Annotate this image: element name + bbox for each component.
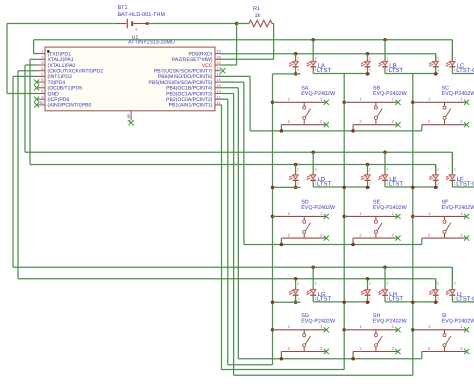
- svg-text:EVQ-P2402W: EVQ-P2402W: [373, 319, 408, 325]
- wire PB2 across and down: [221, 98, 228, 100]
- wire switch row net: [238, 358, 421, 360]
- wire switch row net: [244, 244, 422, 246]
- svg-text:PB1(AIN1/PCINT1): PB1(AIN1/PCINT1): [169, 103, 213, 109]
- pin 1 (TXD)PD1: [37, 50, 71, 58]
- svg-text:3: 3: [41, 61, 43, 65]
- svg-text:10: 10: [39, 101, 43, 105]
- wire PB2 bottom run to column A: [228, 364, 273, 366]
- pin 16 PB6(MISO/DO/PCINT6): [158, 73, 221, 81]
- wire junction to R1: [237, 23, 249, 25]
- wire jog up to right switch pin2: [421, 352, 423, 359]
- wire PD2 down: [18, 70, 37, 72]
- junction VCC/R1 node: [235, 22, 239, 26]
- wire R1 down to PA2: [273, 24, 275, 60]
- wire column A vertical: [272, 74, 274, 365]
- svg-text:-: -: [431, 281, 432, 285]
- pin 17 PB7(UCSK/SCK/PCINT7): [154, 67, 221, 75]
- svg-text:14: 14: [217, 84, 221, 88]
- wire led2 bottom to next column: [385, 301, 438, 303]
- wire column B vertical: [343, 74, 345, 370]
- wire PB4 across and down: [221, 87, 239, 89]
- LED LG pair: [289, 265, 317, 304]
- LED LC pair: [429, 40, 456, 76]
- wire battery minus to GND pin: [7, 93, 37, 95]
- wire PA0 down: [25, 64, 37, 66]
- svg-text:9: 9: [41, 95, 43, 99]
- wire switch pin2 riser: [352, 238, 354, 244]
- battery BT1: [117, 19, 147, 33]
- pin 4 (CKOUT/XCK/INT0)PD2: [37, 67, 103, 75]
- wire battery plus to junction: [147, 23, 236, 25]
- pin 5 (INT1)PD3: [37, 73, 72, 81]
- wire PB3 bottom run to column C: [234, 374, 413, 376]
- svg-text:13: 13: [217, 90, 221, 94]
- svg-text:-: -: [380, 167, 381, 171]
- wire switch pin2 riser: [280, 238, 282, 244]
- svg-text:1k: 1k: [255, 13, 261, 19]
- svg-text:-: -: [291, 281, 292, 285]
- svg-text:1: 1: [41, 50, 43, 54]
- wire rail row2 upper (PA0 net): [25, 151, 452, 153]
- svg-text:11: 11: [217, 101, 221, 105]
- wire led bottom rail: [273, 73, 301, 75]
- svg-text:R1: R1: [253, 6, 260, 12]
- svg-text:EVQ-P2402W: EVQ-P2402W: [442, 91, 474, 97]
- svg-text:EVQ-P2402W: EVQ-P2402W: [373, 205, 408, 211]
- LED LH pair: [361, 265, 389, 304]
- pin 12 PB2(OC0A/PCINT2): [166, 95, 221, 103]
- wire led bottom rail: [273, 186, 301, 188]
- switch SC: [411, 97, 469, 128]
- no-connect PD5: [34, 85, 39, 90]
- svg-text:-: -: [309, 56, 310, 60]
- svg-text:-: -: [363, 56, 364, 60]
- svg-text:EVQ-P2402W: EVQ-P2402W: [442, 205, 474, 211]
- svg-text:EVQ-P2402W: EVQ-P2402W: [442, 319, 474, 325]
- wire switch pin2 riser: [352, 352, 354, 359]
- svg-text:6: 6: [41, 78, 43, 82]
- wire switch row net: [250, 130, 422, 132]
- switch SB: [342, 97, 400, 128]
- svg-text:-: -: [448, 167, 449, 171]
- wire PB5 across and down: [221, 81, 244, 83]
- svg-text:EVQ-P2402W: EVQ-P2402W: [301, 91, 336, 97]
- svg-text:18: 18: [217, 55, 221, 59]
- wire rail row2 lower (PA1 net): [30, 164, 436, 166]
- svg-text:-: -: [291, 56, 292, 60]
- wire railL corner down (col C led1): [435, 54, 437, 62]
- pin 21 EP: [127, 111, 134, 126]
- svg-text:12: 12: [217, 95, 221, 99]
- pin 7 (OC0B/T1)PD5: [37, 84, 82, 92]
- wire R1 right lead: [272, 23, 274, 25]
- switch SE: [342, 211, 400, 241]
- pin 9 (ICP)PD6: [37, 95, 69, 103]
- svg-text:ATTINY2313-20MU: ATTINY2313-20MU: [128, 40, 175, 46]
- svg-text:17: 17: [217, 67, 221, 71]
- pin 8 GND: [37, 90, 59, 98]
- no-connect PD6: [34, 97, 39, 102]
- LED LB pair: [361, 38, 389, 76]
- svg-text:+: +: [135, 28, 138, 33]
- resistor R1: [249, 20, 272, 26]
- wire switch pin2 riser: [280, 125, 282, 131]
- svg-text:-: -: [380, 56, 381, 60]
- LED LA pair: [289, 38, 317, 76]
- wire battery minus top: [7, 23, 117, 25]
- wire PB3 across and down: [221, 93, 234, 95]
- wire railR corner down (col C led2): [451, 40, 453, 62]
- wire rail row1 upper (PD1 net): [34, 39, 453, 41]
- pin 10 (AIN0/PCINT0)PB0: [37, 101, 92, 109]
- microcontroller U1 ATTINY2313-20MU: [45, 47, 215, 111]
- pin 3 (XTAL1)PA0: [37, 61, 76, 69]
- pin 11 PB1(AIN1/PCINT1): [169, 101, 221, 109]
- no-connect PB0: [34, 102, 39, 107]
- svg-text:-: -: [431, 167, 432, 171]
- svg-text:EP: EP: [127, 113, 131, 118]
- wire PB1 across and down: [221, 104, 222, 106]
- svg-text:-: -: [309, 281, 310, 285]
- LED LE pair: [361, 150, 389, 189]
- switch SG: [271, 324, 329, 354]
- LED LD pair: [289, 150, 317, 189]
- wire jog up to right switch pin2: [421, 238, 423, 244]
- wire rail row1 lower (PD0 net): [221, 53, 436, 55]
- pin 2 XTAL2)PA1: [37, 55, 74, 63]
- switch SF: [411, 211, 469, 241]
- svg-text:BT1: BT1: [118, 5, 128, 11]
- svg-text:4: 4: [41, 67, 43, 71]
- svg-text:-: -: [431, 56, 432, 60]
- no-connect PB7: [220, 68, 225, 73]
- pin 6 T0)PD4: [37, 78, 65, 86]
- svg-text:5: 5: [41, 73, 43, 77]
- wire PD3 down: [13, 75, 37, 77]
- svg-text:-: -: [380, 281, 381, 285]
- svg-text:-: -: [448, 56, 449, 60]
- svg-text:(AIN0/PCINT0)PB0: (AIN0/PCINT0)PB0: [48, 103, 92, 109]
- wire led2 bottom to next column: [313, 186, 370, 188]
- pin 19 PD0(RXD): [188, 50, 220, 58]
- wire VCC up to battery junction: [236, 24, 238, 66]
- wire led2 bottom to next column: [452, 73, 474, 75]
- wire switch pin2 riser: [352, 125, 354, 131]
- svg-text:BAT-HLD-001-THM: BAT-HLD-001-THM: [118, 12, 166, 18]
- wire led2 bottom to next column: [385, 186, 438, 188]
- svg-text:-: -: [291, 167, 292, 171]
- switch SI: [411, 324, 469, 354]
- junction battery plus pin end: [146, 22, 149, 25]
- svg-text:-: -: [363, 281, 364, 285]
- wire column C vertical: [412, 74, 414, 376]
- wire jog up to right switch pin2: [421, 125, 423, 131]
- wire led2 bottom to next column: [452, 186, 474, 188]
- wire rail row3 upper (PD3 net): [13, 266, 452, 268]
- svg-text:20: 20: [217, 61, 221, 65]
- svg-text:EVQ-P2402W: EVQ-P2402W: [301, 319, 336, 325]
- LED LF pair: [429, 152, 456, 189]
- wire rail row3 lower (PD2 net): [18, 278, 436, 280]
- pin 15 PB5(MOSI/DI/SDA/PCINT5): [149, 78, 221, 86]
- wire led bottom rail: [273, 301, 301, 303]
- switch SH: [342, 324, 400, 354]
- svg-text:-: -: [363, 167, 364, 171]
- pin 13 PB3(OC1A/PCINT3): [166, 90, 221, 98]
- pin 20 VCC: [202, 61, 221, 69]
- wire PD1 up-over rail: [34, 53, 37, 55]
- no-connect PD4: [34, 80, 39, 85]
- wire led2 bottom to next column: [385, 73, 438, 75]
- svg-text:7: 7: [41, 84, 43, 88]
- svg-text:EVQ-P2402W: EVQ-P2402W: [373, 91, 408, 97]
- wire switch pin2 riser: [280, 352, 282, 359]
- svg-text:8: 8: [41, 90, 43, 94]
- svg-text:EVQ-P2402W: EVQ-P2402W: [301, 205, 336, 211]
- svg-text:-: -: [448, 281, 449, 285]
- wire led2 bottom to next column: [313, 301, 370, 303]
- switch SA: [271, 97, 329, 128]
- svg-text:19: 19: [217, 50, 221, 54]
- wire led2 bottom to next column: [452, 301, 474, 303]
- pin 18 PA2(RESET*/dW): [172, 55, 221, 63]
- wire led2 bottom to next column: [313, 73, 370, 75]
- svg-text:15: 15: [217, 78, 221, 82]
- wire PB1 bottom run to column B: [222, 369, 345, 371]
- junction dots columns on bottom rails rows D,G: [271, 186, 275, 190]
- wire battery minus left vertical: [6, 24, 8, 94]
- wire PB6 across and down: [221, 75, 251, 77]
- pin 14 PB4(OC1B/PCINT4): [166, 84, 221, 92]
- svg-text:-: -: [309, 167, 310, 171]
- LED LI pair: [429, 267, 456, 304]
- svg-text:2: 2: [41, 55, 43, 59]
- wire PA1 down: [30, 58, 37, 60]
- switch SD: [271, 211, 329, 241]
